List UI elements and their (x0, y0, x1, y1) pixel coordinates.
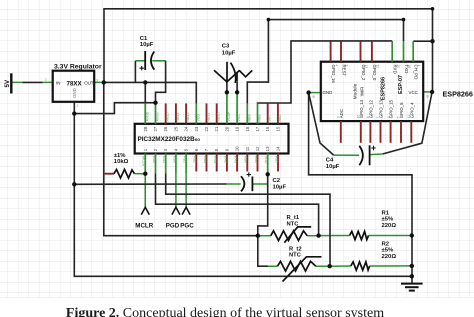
junction node bridge right R_t1/R1 (316, 233, 320, 237)
junction node MCLR at R3 (143, 172, 147, 176)
wire C1 left drop (134, 61, 136, 83)
svg-text:NTC: NTC (287, 221, 300, 227)
svg-text:GPIO_14: GPIO_14 (359, 99, 364, 118)
svg-text:RB14: RB14 (176, 113, 180, 122)
wire 5V middle segment (23, 81, 43, 83)
svg-text:PIC32MX220F032Bso: PIC32MX220F032Bso (138, 136, 201, 143)
U1 pin numbers 1-14 (143, 146, 281, 151)
svg-text:VSS: VSS (237, 114, 241, 122)
wire GND rail A to C2 (74, 183, 226, 185)
wire 10k right green (135, 173, 146, 175)
svg-text:R_t1: R_t1 (287, 215, 300, 221)
svg-text:3: 3 (345, 65, 349, 67)
svg-text:CH_PD: CH_PD (414, 65, 419, 80)
U2 pin name labels bottom row (339, 99, 415, 118)
connector PGC pinhead (180, 207, 194, 229)
svg-text:GPIO_12: GPIO_12 (369, 99, 374, 118)
wire 3.3V rail horizontal (104, 82, 197, 103)
svg-text:28: 28 (143, 126, 148, 131)
svg-text:GND: GND (323, 90, 333, 95)
svg-text:RB11: RB11 (207, 113, 211, 122)
svg-text:C1: C1 (140, 36, 148, 42)
svg-text:Module: Module (352, 83, 357, 99)
svg-text:10: 10 (235, 146, 240, 151)
svg-text:AVDD: AVDD (145, 111, 149, 121)
svg-text:18: 18 (245, 126, 250, 131)
svg-text:21: 21 (214, 126, 219, 131)
svg-text:RB1: RB1 (183, 156, 187, 163)
wire C1 leads green (135, 60, 165, 62)
wire 5V to IN (12, 81, 52, 83)
svg-text:78XX: 78XX (67, 80, 83, 87)
svg-text:REST: REST (341, 65, 346, 77)
junction node bridge right R_t2/R2 (328, 264, 332, 268)
svg-text:1: 1 (417, 65, 421, 67)
svg-text:Figure 2. Conceptual design of: Figure 2. Conceptual design of the virtu… (66, 306, 384, 317)
wire C4 leads (334, 154, 383, 155)
svg-text:14: 14 (275, 146, 280, 151)
svg-text:GND: GND (72, 88, 77, 98)
wire ESP GND diagonal to C4 (309, 93, 334, 156)
svg-text:RB15: RB15 (166, 113, 170, 122)
svg-text:13: 13 (265, 146, 270, 151)
svg-text:ESP8266: ESP8266 (443, 90, 473, 99)
corner node top-right 3V3 (431, 7, 435, 11)
svg-text:C3: C3 (222, 44, 230, 50)
wire ESP GND down and right rail (309, 93, 412, 284)
wire MCLR green (144, 174, 146, 207)
svg-text:VCAP: VCAP (227, 111, 231, 121)
svg-text:R2: R2 (382, 241, 390, 247)
svg-text:10kΩ: 10kΩ (114, 159, 129, 165)
svg-text:RB13: RB13 (186, 113, 190, 122)
svg-text:12: 12 (376, 65, 380, 69)
svg-text:RB7: RB7 (268, 115, 272, 122)
wire C1 right to pin27 (156, 61, 166, 103)
junction node R2 to GND rail (410, 264, 414, 268)
U1 pin numbers 28-15 (143, 126, 281, 131)
connector PGD pinhead (166, 207, 180, 229)
wire pin28 drop (144, 82, 146, 103)
wire C3 leads (227, 80, 237, 92)
junction C3 lead at pin 20 (225, 90, 229, 94)
U2 pin name labels top row (331, 65, 419, 84)
wire pin3 to wire B (166, 173, 330, 266)
junction node VCC at ESP (430, 90, 434, 94)
svg-text:10µF: 10µF (140, 42, 154, 48)
svg-text:13: 13 (364, 65, 368, 69)
svg-text:220Ω: 220Ω (382, 223, 397, 229)
svg-text:19: 19 (235, 126, 240, 131)
IC U1 PIC32 top pins (connected) (145, 92, 257, 124)
svg-text:RB8: RB8 (258, 115, 262, 122)
svg-text:5V: 5V (4, 79, 11, 87)
junction node 3V3 at pin 28 (143, 80, 147, 84)
op-amp? no: IC body U1 (135, 124, 289, 154)
svg-text:10µF: 10µF (222, 50, 236, 56)
svg-text:23: 23 (194, 126, 199, 131)
svg-text:2: 2 (77, 104, 79, 108)
IC U1 PIC32 bottom pins (connected) (145, 154, 267, 175)
svg-text:C4: C4 (326, 158, 334, 164)
svg-text:4: 4 (334, 65, 338, 67)
wire C2 net down to bridge (258, 174, 268, 266)
svg-text:RA3: RA3 (234, 156, 238, 163)
svg-text:GPIO_16: GPIO_16 (331, 65, 336, 84)
wire T2 PIC18-ESP TXD (247, 20, 403, 104)
junction node bridge left (256, 234, 260, 238)
svg-text:8: 8 (427, 95, 429, 99)
svg-text:VDD: VDD (264, 156, 268, 164)
wire pin2 to wire C (156, 173, 319, 235)
junction CH_PD to VCC (430, 39, 434, 43)
module U2 ESP8266 top pins RXD TXD CH_PD (connected) (392, 41, 413, 62)
junction node R1 to GND rail (410, 233, 414, 237)
junction node bottom rail to GND (410, 274, 414, 278)
wire VCC diagonal to C4 (383, 92, 432, 154)
wire near C2 green (227, 183, 268, 185)
U1 pin name labels (bottom row) (142, 156, 279, 167)
svg-text:RB5: RB5 (274, 156, 278, 163)
svg-text:MCLR: MCLR (135, 223, 153, 230)
svg-text:VDD: VDD (196, 114, 200, 122)
svg-text:PGC: PGC (180, 223, 194, 230)
wire regulator GND pin (73, 102, 75, 114)
svg-text:RA0: RA0 (152, 156, 156, 163)
svg-text:17: 17 (255, 126, 260, 131)
svg-text:ESP-07: ESP-07 (398, 75, 404, 94)
svg-text:26: 26 (163, 126, 168, 131)
wire PGC green (185, 173, 187, 206)
svg-text:15: 15 (396, 65, 400, 69)
U1 pin name labels (top row) (145, 111, 282, 121)
svg-text:NTC: NTC (289, 253, 302, 259)
IC U1 PIC32 bottom pins (unconnected stubs) (196, 154, 278, 172)
module U2 ESP8266 top pins (unconnected stubs) (331, 41, 372, 61)
wire R_t1 leads (258, 235, 319, 237)
junction node VDD at pin 13 / C2 (266, 172, 270, 176)
svg-text:±5%: ±5% (382, 248, 395, 254)
svg-text:RB2: RB2 (193, 156, 197, 163)
svg-text:RB9: RB9 (247, 115, 251, 122)
svg-text:3.3V Regulator: 3.3V Regulator (54, 64, 102, 71)
wire CH_PD to VCC rail (413, 40, 432, 42)
wire 3.3V vertical to bridge top (104, 82, 258, 235)
svg-text:1: 1 (45, 78, 47, 82)
svg-text:R_t2: R_t2 (289, 246, 302, 252)
svg-text:RB4: RB4 (244, 156, 248, 163)
svg-text:25: 25 (173, 126, 178, 131)
junction node GND rail branch (72, 182, 76, 186)
svg-text:10µF: 10µF (273, 185, 287, 191)
wire R_t2 leads (259, 265, 330, 267)
svg-text:GPIO_4: GPIO_4 (409, 102, 414, 118)
svg-text:11: 11 (245, 146, 250, 151)
svg-text:RA1: RA1 (162, 156, 166, 163)
svg-text:27: 27 (153, 126, 158, 131)
svg-text:ESP8266: ESP8266 (380, 77, 386, 100)
junction C3 lead at pin 19 (235, 90, 239, 94)
svg-text:20: 20 (224, 126, 229, 131)
junction node GND at pin 27 (153, 101, 157, 105)
svg-text:9: 9 (313, 95, 315, 99)
svg-text:RA4: RA4 (254, 156, 258, 163)
svg-text:22: 22 (204, 126, 209, 131)
wire regulator GND to pin27 (74, 103, 155, 114)
svg-text:RA2: RA2 (223, 156, 227, 163)
junction node GND at ESP (306, 90, 310, 94)
svg-text:16: 16 (265, 126, 270, 131)
svg-text:24: 24 (184, 126, 189, 131)
svg-text:220Ω: 220Ω (382, 254, 397, 260)
svg-text:WiFi: WiFi (359, 87, 364, 96)
wire PIC17-ESP RXD (258, 41, 393, 104)
wire ESP GND pin (309, 92, 321, 94)
wire left GND vertical + bottom rail (74, 102, 412, 276)
svg-text:GPIO_13: GPIO_13 (379, 99, 384, 118)
IC U1 PIC32 top pins (unconnected stubs) (166, 103, 278, 123)
svg-text:RB0: RB0 (172, 156, 176, 163)
svg-text:R1: R1 (382, 210, 390, 216)
wire top 3.3V rail T1 (104, 9, 433, 92)
junction node 3V3 at regulator OUT (102, 80, 106, 84)
svg-text:AVSS: AVSS (156, 112, 160, 122)
svg-text:GPIO_15: GPIO_15 (389, 99, 394, 118)
svg-text:VCC: VCC (409, 90, 418, 95)
svg-text:RB3: RB3 (203, 156, 207, 163)
svg-text:12: 12 (255, 146, 260, 151)
svg-text:GPIO_5: GPIO_5 (399, 102, 404, 118)
module U2 ESP8266 bottom pins (unconnected stubs) (341, 121, 412, 143)
corner node TX wire (267, 18, 271, 22)
wire R2 leads (330, 265, 412, 267)
svg-text:MCLR: MCLR (142, 156, 146, 167)
wire OUT to junction (94, 81, 104, 83)
svg-text:16: 16 (407, 65, 411, 69)
svg-text:RB5: RB5 (278, 115, 282, 122)
svg-text:3: 3 (96, 79, 98, 83)
wire R1 leads (319, 235, 412, 237)
junction node GND at regulator (72, 111, 76, 115)
svg-text:C2: C2 (273, 178, 281, 184)
svg-text:ADC: ADC (339, 109, 344, 118)
svg-text:OUT: OUT (84, 80, 94, 85)
svg-text:PGD: PGD (166, 223, 180, 230)
svg-text:VSS: VSS (213, 156, 217, 164)
wire ESP VCC pin (423, 91, 432, 93)
corner node at ESP TXD drop (402, 18, 406, 22)
svg-text:IN: IN (56, 80, 60, 85)
svg-text:15: 15 (275, 126, 280, 131)
svg-text:±5%: ±5% (382, 217, 395, 223)
svg-text:RB10: RB10 (217, 113, 221, 122)
bottom-left page artifact (0, 297, 474, 299)
svg-text:10µF: 10µF (326, 164, 340, 170)
wire PGD green (175, 173, 177, 206)
